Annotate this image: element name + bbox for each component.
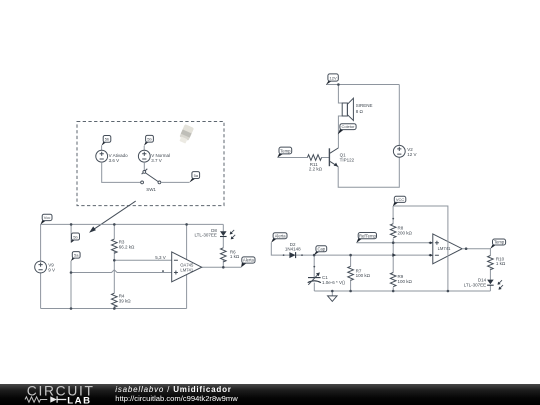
dashed annotation box (77, 122, 224, 206)
wire V Ativado top (101, 146, 103, 151)
wire R11 to base (322, 157, 329, 159)
wire opamp minus input (114, 259, 171, 261)
node 5b flag (left) (101, 142, 106, 146)
node 5b flag (right) (144, 142, 149, 146)
photo battery image (178, 124, 194, 144)
junction dot bottom rail R9 (392, 290, 395, 293)
capacitor C1 variable (313, 266, 315, 268)
svg-text:8 Ω: 8 Ω (356, 109, 364, 114)
wire opamp output (202, 266, 242, 268)
opamp input terminal arrows (429, 242, 431, 244)
svg-text:100 kΩ: 100 kΩ (356, 273, 371, 278)
tiny annotation dot near plus input (162, 270, 164, 272)
svg-text:LM741: LM741 (438, 246, 451, 251)
junction dot 12V rail (337, 83, 340, 86)
junction dot divider to plus wire (392, 241, 395, 244)
svg-text:5a: 5a (194, 173, 199, 178)
voltage source V Normal 3.7V (138, 150, 150, 162)
node Cap flag (313, 254, 316, 257)
svg-text:Vcc: Vcc (44, 215, 51, 220)
junction dot R3 R4 divider (113, 259, 116, 262)
wire plus input from RefTemp (357, 242, 433, 244)
crossing arrow marker on minus rail (392, 253, 396, 257)
wire bottom rail (41, 308, 187, 310)
node Temp flag (right) (490, 245, 496, 249)
voltage source V Ativado 3.6V (96, 150, 108, 162)
svg-text:9 V: 9 V (48, 268, 55, 273)
speaker SP1 SIRENE (342, 103, 347, 116)
svg-text:LTL-307EE: LTL-307EE (194, 233, 216, 238)
wire top rail 12V (326, 84, 399, 86)
junction dot C1 rail (349, 254, 352, 257)
wire 5a column (70, 261, 72, 309)
svg-text:Cap: Cap (317, 246, 325, 251)
wire switch to 5a (161, 181, 190, 183)
ground symbol (331, 291, 333, 296)
node 12V flag (326, 81, 332, 85)
wire R10 to D14 (489, 268, 491, 291)
svg-text:1.0e-6 * V(): 1.0e-6 * V() (322, 280, 346, 285)
junction dot bottom rail opamp power (447, 290, 450, 293)
svg-text:2.2 kΩ: 2.2 kΩ (309, 167, 323, 172)
junction dot R7 bottom (349, 290, 352, 293)
svg-text:200 kΩ: 200 kΩ (398, 231, 413, 236)
voltage source V9 9V (35, 261, 47, 273)
svg-text:1 kΩ: 1 kΩ (230, 254, 240, 259)
LED D8 LTL-307EE (220, 231, 227, 236)
wire 5b stub (70, 224, 72, 242)
svg-text:Coletor: Coletor (342, 124, 356, 129)
svg-text:LM741: LM741 (180, 267, 193, 272)
wire D8 R6 column (222, 224, 224, 267)
wire left column V9 (40, 224, 42, 308)
wire emitter down and bottom rail (338, 157, 399, 187)
junction dots top rail (70, 223, 73, 226)
wire R3 R4 column (113, 224, 115, 308)
wire base from Temp flag to R11 (278, 157, 308, 159)
svg-text:1N4148: 1N4148 (285, 247, 301, 252)
wire V Normal bottom (143, 162, 145, 170)
svg-text:LTL-307EE: LTL-307EE (464, 282, 486, 287)
switch SW1 (142, 169, 148, 174)
node Alerta flag (input) (271, 238, 277, 242)
wire VCC to opamp power column (393, 206, 448, 291)
wire V Normal top (143, 146, 145, 151)
svg-text:12 V: 12 V (407, 152, 416, 157)
junction dot opamp output (465, 247, 468, 250)
svg-text:66.2 kΩ: 66.2 kΩ (119, 244, 135, 249)
junction dot output LED (222, 266, 225, 269)
node VCC flag (393, 202, 399, 206)
LED D8 light arrows (231, 230, 234, 233)
wire speaker column (338, 85, 342, 149)
svg-text:VCC: VCC (396, 197, 405, 202)
resistor R7 100k (348, 266, 354, 280)
node Alerta flag (output) (241, 263, 247, 268)
svg-text:http://circuitlab.com/c994tk2r: http://circuitlab.com/c994tk2r8w9mw (115, 394, 238, 403)
svg-text:5,3 V: 5,3 V (155, 255, 166, 260)
svg-text:Temp: Temp (280, 148, 291, 153)
resistor R11 (307, 155, 321, 161)
node Coletor flag (338, 129, 345, 134)
wire V Ativado bottom to switch (102, 162, 141, 182)
wire bottom rail (314, 290, 490, 292)
resistor R4 39k (112, 293, 118, 307)
svg-text:5b: 5b (147, 137, 152, 142)
LED D14 light arrows (499, 280, 502, 283)
svg-text:39 kΩ: 39 kΩ (119, 299, 132, 304)
node Vcc flag (40, 220, 46, 224)
svg-text:LAB: LAB (67, 395, 91, 405)
resistor R10 1k (488, 256, 494, 270)
svg-text:isabellabvo / Umidificador: isabellabvo / Umidificador (115, 385, 231, 394)
wire opamp plus input with hop (71, 270, 172, 273)
wire R8 R9 column (392, 206, 394, 291)
resistor R8 200k (390, 224, 396, 238)
resistor R9 100k (390, 273, 396, 287)
node Temp flag (277, 154, 283, 158)
svg-text:1 kΩ: 1 kΩ (496, 261, 506, 266)
diode D2 1N4148 (283, 254, 285, 256)
svg-text:5b: 5b (105, 137, 110, 142)
LED D14 LTL-307EE (487, 280, 494, 285)
transistor Q1 TIP122 (329, 148, 330, 166)
svg-text:Alerta: Alerta (243, 258, 255, 263)
wire C1 column (313, 255, 315, 291)
svg-text:3.6 V: 3.6 V (109, 158, 120, 163)
voltage source V2 12V (393, 145, 405, 157)
op-amp U2 LM741 triangle (433, 234, 462, 264)
svg-text:12V: 12V (330, 75, 337, 80)
terminal dot R8 top (392, 218, 394, 220)
svg-text:3.7 V: 3.7 V (151, 158, 162, 163)
wire minus rail from Alerta (271, 243, 433, 256)
resistor R3 66.2k (112, 239, 118, 253)
logo diode (50, 396, 57, 402)
logo resistor zigzag (25, 397, 47, 402)
svg-text:TIP122: TIP122 (340, 158, 355, 163)
node 5a flag (189, 179, 195, 183)
junction dots bottom rail (70, 307, 73, 310)
junction dot 5a to plus wire (70, 271, 73, 274)
node 5b flag (71, 240, 76, 243)
junction dot ground tap (331, 290, 334, 293)
wire V2 top (398, 85, 400, 146)
wire top rail Vcc (41, 223, 224, 225)
wire R7 column (350, 255, 352, 291)
svg-text:Alerta: Alerta (275, 233, 287, 238)
node 5a flag (71, 258, 76, 261)
svg-text:100 kΩ: 100 kΩ (398, 279, 413, 284)
svg-text:5a: 5a (74, 253, 79, 258)
svg-text:5b: 5b (73, 234, 78, 239)
svg-text:Temp: Temp (494, 240, 505, 245)
wire opamp power column (186, 224, 188, 308)
wire opamp output to Temp (462, 249, 490, 256)
svg-text:RefTemp: RefTemp (359, 233, 376, 238)
svg-text:SIRENE: SIRENE (356, 103, 373, 108)
op-amp OA745 LM741 (172, 252, 202, 282)
resistor R6 1k (221, 248, 227, 262)
annotation arrow to bottom-left circuit (93, 201, 136, 230)
svg-text:SW1: SW1 (146, 187, 156, 192)
node RefTemp flag (356, 238, 362, 243)
